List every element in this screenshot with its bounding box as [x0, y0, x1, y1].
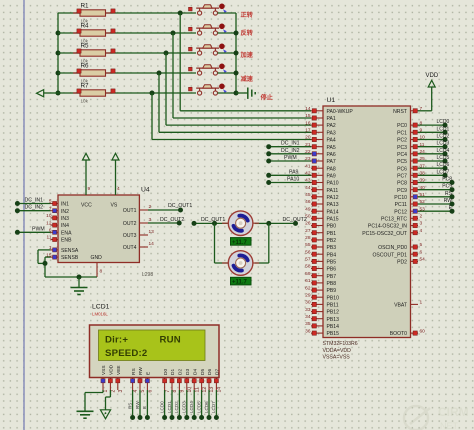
svg-text:1: 1	[420, 300, 423, 306]
power arrow (LCD VDD)	[100, 410, 110, 419]
wire net PWM (U4)	[15, 226, 51, 235]
svg-text:5: 5	[420, 242, 423, 248]
wire net PA9 (U1)	[266, 169, 311, 178]
svg-text:9: 9	[88, 186, 91, 192]
pin U1 PB9 (62)	[305, 285, 336, 294]
wire net RW (LCD)	[135, 390, 143, 420]
svg-text:DC_OUT2: DC_OUT2	[283, 217, 307, 223]
pin U1 PA0-WKUP (14)	[305, 106, 353, 115]
IC U1 STM32F103R6	[323, 97, 411, 361]
svg-text:PB1: PB1	[327, 231, 337, 237]
svg-text:2: 2	[111, 390, 117, 393]
resistor R7	[58, 83, 196, 104]
pin U1 PA4 (20)	[305, 135, 336, 144]
svg-text:6: 6	[148, 390, 154, 393]
svg-text:36: 36	[305, 328, 311, 334]
svg-text:20: 20	[305, 135, 311, 141]
svg-text:LCD5: LCD5	[437, 155, 450, 161]
resistor R5	[58, 43, 196, 64]
pin U1 PC12 (53)	[394, 206, 425, 215]
svg-text:VDDA=VDD: VDDA=VDD	[323, 348, 352, 354]
pin U4 GND (8) bottom	[97, 263, 103, 278]
button S2	[189, 24, 227, 36]
pin U4 SENSB (15)	[46, 252, 79, 261]
wire net DC_OUT2 (right)	[269, 217, 307, 226]
svg-text:PB9: PB9	[327, 288, 337, 294]
svg-text:PC4: PC4	[397, 152, 407, 158]
pin U1 PA1 (15)	[305, 113, 336, 122]
wire right bus	[235, 13, 237, 93]
svg-text:SPEED:2: SPEED:2	[105, 348, 147, 359]
svg-text:PC15-OSC32_OUT: PC15-OSC32_OUT	[362, 231, 407, 237]
svg-text:8: 8	[100, 269, 103, 275]
pin U1 PB12 (33)	[305, 307, 339, 316]
svg-text:RS: RS	[127, 403, 132, 409]
pin U1 OSCOUT_PD1 (6)	[372, 249, 422, 258]
svg-text:4: 4	[133, 390, 139, 393]
svg-text:CIRM: CIRM	[438, 405, 469, 419]
button S5	[189, 84, 227, 96]
wire net LCD7 (LCD D7)	[211, 390, 219, 420]
svg-text:VDD: VDD	[426, 73, 439, 79]
svg-text:PB3: PB3	[327, 245, 337, 251]
pin U1 PA14 (49)	[305, 206, 339, 215]
wire net DC_IN1 (U1)	[266, 141, 311, 150]
wire net LCD5 (LCD D5)	[196, 390, 204, 420]
wire PC1 net LCD1	[418, 126, 450, 135]
svg-text:IN4: IN4	[61, 223, 69, 229]
svg-text:49: 49	[305, 206, 311, 212]
wire LCD VDD to power	[106, 390, 111, 410]
svg-text:PA1: PA1	[327, 116, 336, 122]
pin LCD1 RS (4)	[131, 368, 139, 392]
svg-text:D1: D1	[170, 369, 176, 375]
svg-text:Dir:+: Dir:+	[105, 335, 128, 346]
svg-text:VBAT: VBAT	[394, 303, 407, 309]
svg-text:ENA: ENA	[61, 230, 72, 236]
svg-text:46: 46	[305, 199, 311, 205]
button S3	[189, 44, 227, 56]
svg-text:PB14: PB14	[327, 324, 340, 330]
node junction row3	[164, 51, 169, 56]
svg-text:PA9: PA9	[289, 169, 299, 175]
wire PC7 net LCD7	[418, 169, 450, 178]
wire net DC_IN2 (U4)	[15, 205, 51, 214]
svg-text:DC_IN2: DC_IN2	[281, 148, 300, 154]
pin U1 PB11 (30)	[305, 300, 339, 309]
wire key2 to PA1	[173, 33, 311, 118]
svg-text:反转: 反转	[241, 29, 254, 37]
pin LCD1 D6 (13)	[207, 369, 215, 393]
svg-text:12: 12	[46, 220, 52, 226]
power VDD (U4 VCC)	[83, 153, 90, 195]
svg-text:PB7: PB7	[327, 274, 337, 280]
pin U1 PA9 (42)	[305, 171, 336, 180]
resistor R1	[58, 3, 196, 24]
wire button row5	[218, 92, 237, 94]
pin U1 PA8 (41)	[305, 163, 336, 172]
svg-text:6: 6	[420, 249, 423, 255]
svg-text:2: 2	[149, 204, 152, 210]
svg-text:GND: GND	[91, 255, 103, 261]
svg-text:OSCIN_PD0: OSCIN_PD0	[378, 245, 407, 251]
wire net DC_IN1 (U4)	[15, 198, 51, 207]
pin U1 PC10 (51)	[394, 192, 425, 201]
svg-text:62: 62	[305, 285, 311, 291]
pin U1 PB7 (59)	[305, 271, 336, 280]
svg-text:LCD1: LCD1	[437, 126, 450, 132]
svg-text:11: 11	[47, 235, 52, 241]
wire PC0 net LCD0	[418, 119, 450, 128]
probe squares R4	[77, 29, 115, 33]
svg-text:R5: R5	[81, 43, 90, 50]
svg-text:PC11: PC11	[395, 202, 408, 208]
label button rows	[240, 11, 254, 83]
svg-text:LCD4: LCD4	[437, 148, 450, 154]
svg-text:R6: R6	[81, 63, 90, 70]
pin U1 PC9 (40)	[397, 185, 425, 194]
svg-text:D5: D5	[200, 369, 206, 375]
svg-text:ENB: ENB	[61, 238, 72, 244]
pin U1 PA15 (50)	[305, 214, 339, 223]
svg-text:2: 2	[420, 214, 423, 220]
svg-text:+11.7: +11.7	[232, 240, 248, 246]
pin LCD1 D4 (11)	[192, 369, 200, 393]
wire net LCD4 (LCD D4)	[189, 390, 197, 420]
wire left bus	[57, 13, 59, 93]
pin U4 OUT4 (14)	[123, 241, 154, 251]
pin U4 VS (4) top	[116, 186, 121, 195]
svg-text:33: 33	[305, 307, 311, 313]
wire key1 to PA0	[180, 13, 311, 111]
svg-text:RUN: RUN	[160, 335, 181, 346]
svg-text:RS: RS	[131, 368, 137, 375]
pin U1 PB6 (58)	[305, 264, 336, 273]
svg-text:L298: L298	[142, 272, 153, 278]
svg-text:SENSB: SENSB	[61, 255, 79, 261]
svg-text:PC13_RTC: PC13_RTC	[381, 216, 407, 222]
svg-text:PC10: PC10	[394, 195, 407, 201]
svg-text:D2: D2	[178, 369, 184, 375]
svg-text:LCD1: LCD1	[92, 304, 110, 311]
svg-text:34: 34	[305, 314, 311, 320]
svg-text:+11.7: +11.7	[232, 280, 248, 286]
svg-text:OUT4: OUT4	[123, 245, 137, 251]
svg-text:DC_IN1: DC_IN1	[25, 198, 44, 204]
pin U1 PC1 (9)	[397, 128, 422, 137]
wire button row4	[218, 72, 237, 74]
pin U1 PD2 (54)	[397, 257, 425, 266]
probe squares R6	[77, 69, 115, 73]
svg-text:12: 12	[202, 387, 208, 393]
wire motor left rail	[215, 223, 229, 263]
svg-text:PC3: PC3	[397, 145, 407, 151]
wire net PA10 (U1)	[266, 177, 311, 186]
svg-text:LCD2: LCD2	[437, 134, 450, 140]
svg-text:PB15: PB15	[327, 331, 340, 337]
svg-text:PA2: PA2	[327, 123, 336, 129]
pin U1 PC6 (37)	[397, 163, 425, 172]
pin LCD1 D1 (8)	[170, 369, 178, 393]
resistor R6	[58, 63, 196, 84]
svg-text:PC9: PC9	[442, 184, 452, 190]
button S1	[189, 4, 227, 16]
node junction row4	[157, 71, 162, 76]
svg-text:1: 1	[103, 390, 109, 393]
svg-text:PC8: PC8	[397, 181, 407, 187]
svg-text:DC_OUT1: DC_OUT1	[168, 203, 192, 209]
svg-text:停止: 停止	[261, 94, 274, 102]
pin U1 PB2 (28)	[305, 235, 336, 244]
svg-text:LCD1: LCD1	[167, 401, 172, 413]
svg-text:3: 3	[420, 221, 423, 227]
svg-text:DC_IN1: DC_IN1	[281, 141, 300, 147]
svg-text:PB13: PB13	[327, 317, 340, 323]
node junction row5	[150, 91, 155, 96]
svg-text:IN1: IN1	[61, 202, 69, 208]
svg-text:PB8: PB8	[327, 281, 337, 287]
pin U1 PB1 (27)	[305, 228, 336, 237]
svg-text:14: 14	[217, 387, 223, 393]
pin U4 OUT3 (13)	[123, 229, 154, 239]
pin U1 PB15 (36)	[305, 328, 339, 337]
pin U1 PC5 (25)	[397, 156, 425, 165]
motor M1	[222, 211, 259, 236]
pin U1 PA6 (22)	[305, 149, 336, 158]
node left-bus junctions	[56, 31, 61, 36]
pin LCD1 VDD (2)	[108, 364, 116, 392]
svg-text:54: 54	[420, 257, 426, 263]
pin U1 PC2 (10)	[397, 135, 425, 144]
svg-text:VDD: VDD	[109, 364, 115, 375]
svg-text:30: 30	[305, 300, 311, 306]
svg-text:5: 5	[140, 390, 146, 393]
svg-text:OUT2: OUT2	[123, 221, 137, 227]
svg-text:PA13: PA13	[327, 202, 339, 208]
pin U1 PA11 (44)	[305, 185, 338, 194]
svg-text:LCD6: LCD6	[204, 401, 209, 413]
svg-text:NET: NET	[440, 421, 459, 430]
pin U1 PC8 (39)	[397, 178, 425, 187]
svg-text:60: 60	[420, 328, 426, 334]
svg-text:U1: U1	[327, 97, 336, 104]
svg-text:10k: 10k	[81, 98, 89, 103]
svg-text:BOOT0: BOOT0	[390, 331, 407, 337]
svg-text:RS: RS	[445, 191, 453, 197]
svg-text:LCD0: LCD0	[437, 119, 450, 125]
wire PC3 net LCD3	[418, 141, 450, 150]
wire net LCD3 (LCD D3)	[182, 390, 190, 420]
wire motor right rail	[255, 221, 272, 263]
pin U1 BOOT0 (60)	[390, 328, 425, 337]
svg-text:VS: VS	[111, 203, 118, 209]
display LCD1 (LM016L)	[90, 304, 220, 378]
button S4	[189, 64, 227, 76]
pin U1 PB4 (56)	[305, 249, 336, 258]
svg-text:PB4: PB4	[327, 252, 337, 258]
svg-text:E: E	[146, 372, 152, 375]
svg-text:NRST: NRST	[393, 109, 407, 115]
pin U4 IN2 (7)	[49, 206, 69, 215]
svg-text:LCD7: LCD7	[211, 401, 216, 413]
svg-text:PB2: PB2	[327, 238, 337, 244]
ground (LCD VSS)	[77, 411, 94, 418]
svg-text:58: 58	[305, 264, 311, 270]
svg-text:PA14: PA14	[327, 209, 339, 215]
pin U1 PB13 (34)	[305, 314, 339, 323]
svg-text:56: 56	[305, 249, 311, 255]
pin U4 OUT1 (2)	[123, 204, 152, 214]
svg-text:D0: D0	[163, 369, 169, 375]
svg-text:R7: R7	[81, 83, 90, 90]
svg-text:PB5: PB5	[327, 260, 337, 266]
svg-text:正转: 正转	[241, 11, 254, 19]
wire button row3	[218, 52, 237, 54]
pin U1 PC3 (11)	[397, 142, 425, 151]
svg-text:DC_OUT1: DC_OUT1	[201, 217, 225, 223]
svg-text:17: 17	[305, 128, 311, 134]
probe squares R5	[77, 49, 115, 53]
wire LCD VSS to ground	[85, 390, 103, 411]
svg-text:减速: 减速	[241, 75, 254, 83]
wire net RW	[418, 198, 455, 207]
svg-text:61: 61	[305, 278, 311, 284]
svg-text:27: 27	[305, 228, 311, 234]
pin U1 PC4 (24)	[397, 149, 425, 158]
svg-text:LCD0: LCD0	[159, 401, 164, 413]
svg-text:PB12: PB12	[327, 310, 340, 316]
pin LCD1 VEE (3)	[116, 365, 124, 392]
svg-text:44: 44	[305, 185, 311, 191]
pin U4 VCC (9) top	[86, 186, 91, 195]
svg-text:PC12: PC12	[394, 209, 407, 215]
svg-text:55: 55	[305, 242, 311, 248]
svg-text:7: 7	[165, 390, 171, 393]
wire net PC9	[418, 184, 455, 193]
pin LCD1 E (6)	[145, 372, 153, 393]
svg-text:VSSA=VSS: VSSA=VSS	[323, 355, 351, 361]
svg-text:4: 4	[420, 228, 423, 234]
svg-text:R1: R1	[81, 3, 90, 10]
svg-text:D3: D3	[185, 369, 191, 375]
wire net LCD0 (LCD D0)	[159, 390, 167, 420]
svg-text:PB6: PB6	[327, 267, 337, 273]
wire button row1	[218, 12, 237, 14]
wire net LCD6 (LCD D6)	[204, 390, 212, 420]
pin U1 PC15-OSC32_OUT (4)	[362, 228, 422, 237]
svg-text:PA8: PA8	[327, 166, 336, 172]
svg-text:OUT1: OUT1	[123, 208, 137, 214]
svg-text:E: E	[142, 406, 147, 409]
pin U1 VBAT (1)	[394, 300, 422, 309]
svg-text:PA5: PA5	[327, 145, 336, 151]
wire button row2	[218, 32, 237, 34]
svg-text:9: 9	[180, 390, 186, 393]
node junction row1	[178, 11, 183, 16]
pin U1 PB5 (57)	[305, 257, 336, 266]
svg-text:PA0-WKUP: PA0-WKUP	[327, 109, 354, 115]
svg-text:PA10: PA10	[327, 181, 339, 187]
svg-text:PA4: PA4	[327, 138, 336, 144]
svg-text:PA15: PA15	[327, 216, 339, 222]
svg-text:PA9: PA9	[327, 173, 336, 179]
svg-text:PC14-OSC32_IN: PC14-OSC32_IN	[368, 224, 407, 230]
svg-text:PC1: PC1	[397, 130, 407, 136]
wire PC2 net LCD2	[418, 134, 450, 143]
wire PC5 net LCD5	[418, 155, 450, 164]
motor M2	[222, 251, 259, 276]
svg-text:SENSA: SENSA	[61, 248, 79, 254]
svg-text:DC_IN2: DC_IN2	[25, 205, 44, 211]
resistor R4	[58, 23, 196, 44]
display M2 rpm	[231, 277, 252, 285]
pin U4 OUT2 (3)	[123, 217, 152, 227]
svg-text:4: 4	[117, 186, 120, 192]
svg-text:PA12: PA12	[327, 195, 339, 201]
wire key5 to PA4	[152, 93, 311, 140]
svg-text:PB10: PB10	[327, 295, 340, 301]
wire key4 to PA3	[159, 73, 311, 132]
pin U1 PA3 (17)	[305, 128, 336, 137]
wire net LCD1 (LCD D1)	[167, 390, 175, 420]
pin LCD1 D3 (10)	[185, 369, 193, 393]
wire net PC8	[418, 177, 455, 186]
pin U1 OSCIN_PD0 (5)	[378, 242, 422, 251]
svg-text:16: 16	[305, 120, 311, 126]
pin U1 PA13 (46)	[305, 199, 339, 208]
wire net E	[418, 205, 455, 214]
svg-text:VSS: VSS	[101, 365, 107, 375]
pin LCD1 D0 (7)	[163, 369, 171, 393]
wire net E (LCD)	[142, 390, 150, 420]
svg-text:3: 3	[149, 217, 152, 223]
svg-text:PB11: PB11	[327, 303, 339, 309]
probe squares R1	[77, 9, 115, 13]
pin U1 PA10 (43)	[305, 178, 339, 187]
pin U1 NRST (7)	[393, 106, 422, 115]
svg-text:11: 11	[194, 387, 200, 392]
probe squares R7	[77, 89, 115, 93]
svg-text:IN3: IN3	[61, 216, 69, 222]
svg-text:LCD2: LCD2	[174, 401, 179, 413]
svg-text:PC2: PC2	[397, 138, 407, 144]
pin U1 PB0 (26)	[305, 221, 336, 230]
wire SENSA/SENSB to ground	[38, 250, 97, 280]
svg-text:41: 41	[305, 163, 311, 169]
svg-text:加速: 加速	[240, 51, 254, 59]
svg-text:PD2: PD2	[397, 260, 407, 266]
svg-text:PA3: PA3	[327, 130, 336, 136]
pin U4 IN4 (12)	[46, 220, 69, 229]
svg-text:DC_OUT2: DC_OUT2	[160, 217, 184, 223]
display M1 rpm	[231, 238, 252, 246]
pin U1 PC7 (38)	[397, 171, 425, 180]
svg-text:3: 3	[118, 390, 124, 393]
svg-text:LCD3: LCD3	[182, 401, 187, 413]
svg-text:D6: D6	[207, 369, 213, 375]
pin U1 PC0 (8)	[397, 120, 422, 129]
ground stop row	[236, 88, 274, 102]
pin LCD1 D7 (14)	[214, 369, 222, 393]
svg-text:PB0: PB0	[327, 224, 337, 230]
svg-text:D4: D4	[192, 369, 198, 375]
svg-text:RW: RW	[444, 198, 453, 204]
svg-text:LCD3: LCD3	[437, 141, 450, 147]
svg-text:PC6: PC6	[397, 166, 407, 172]
pin U1 PA7 (23)	[305, 156, 336, 165]
svg-text:45: 45	[305, 192, 311, 198]
pin LCD1 VSS (1)	[101, 365, 109, 392]
